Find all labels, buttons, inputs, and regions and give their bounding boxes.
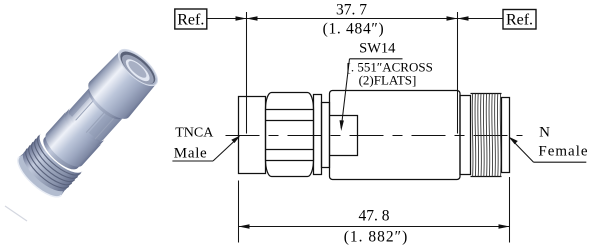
- arrow: left ref leader, tip right at ext line: [236, 16, 247, 20]
- top face ring: [113, 43, 163, 91]
- main body: [330, 91, 461, 180]
- top bore deep center: [126, 58, 149, 80]
- connector bottom face rim: [12, 157, 62, 203]
- connector bottom end cap: [11, 152, 66, 204]
- step ring under top cylinder: [84, 85, 126, 125]
- svg-text:Male: Male: [174, 146, 208, 162]
- top bore inner bright wall: [123, 56, 153, 85]
- hex nut body: [266, 93, 314, 177]
- right Ref box: [503, 10, 536, 30]
- svg-text:(2)FLATS]: (2)FLATS]: [359, 73, 417, 88]
- svg-text:(1. 882″): (1. 882″): [344, 229, 409, 246]
- N female leader underline: [534, 161, 587, 163]
- svg-text:(1. 484″): (1. 484″): [323, 21, 385, 38]
- thread lines: [472, 94, 501, 177]
- hex flat line 1: [266, 109, 314, 111]
- centerline: [226, 135, 523, 137]
- connector top cylinder (slight flare): [82, 50, 157, 125]
- TNCA leader underline: [172, 160, 213, 162]
- connector threaded/ribbed section: [17, 133, 83, 197]
- arrow: right ref leader, tip left at ext line: [458, 16, 469, 20]
- top right extension line: [457, 12, 459, 134]
- connector bright ring: [59, 108, 104, 151]
- svg-text:47. 8: 47. 8: [359, 208, 390, 225]
- ring after hex: [314, 95, 322, 175]
- svg-text:Ref.: Ref.: [506, 12, 533, 29]
- svg-text:N: N: [539, 125, 550, 141]
- hex flat line 3: [266, 149, 314, 151]
- hex facet shading bands: [89, 107, 123, 143]
- svg-text:TNCA: TNCA: [175, 126, 214, 141]
- SW14 leader diagonal: [341, 59, 349, 128]
- bottom dimension line: [239, 226, 510, 228]
- connector groove ring: [38, 133, 81, 174]
- left Ref box: [175, 9, 207, 29]
- arrow: TNCA leader, tip up-right: [231, 136, 240, 144]
- right Ref leader line: [458, 18, 504, 20]
- connector hex section: [64, 87, 124, 146]
- hex facet lines: [74, 97, 116, 140]
- hex flat line 2: [266, 120, 314, 122]
- collar: [460, 96, 471, 175]
- TNCA barrel: [239, 97, 266, 174]
- hex flat line 4: [266, 160, 314, 162]
- N female end cap: [502, 98, 510, 173]
- top left extension line: [246, 12, 248, 134]
- TNCA leader diagonal: [213, 137, 239, 161]
- top dimension line: [247, 18, 458, 20]
- SW14 flat square: [330, 116, 358, 156]
- left Ref leader line: [207, 18, 247, 20]
- connector main body cylinder: [40, 112, 101, 173]
- arrow: SW14 leader, tip down at flat: [340, 120, 344, 131]
- svg-text:37. 7: 37. 7: [336, 2, 367, 19]
- arrow: top dim right end, tip right: [447, 16, 458, 20]
- svg-text:Female: Female: [538, 144, 588, 160]
- groove: [322, 103, 330, 168]
- svg-text:Ref.: Ref.: [177, 12, 204, 29]
- faint floor shadow streak: [5, 206, 27, 221]
- connector bottom face arc: [12, 149, 69, 203]
- arrow: N female leader, tip up-left: [509, 137, 518, 145]
- top bore mid wall: [118, 50, 159, 89]
- arrowheads: [231, 16, 518, 228]
- thread section bottom edge: [471, 176, 502, 178]
- thread section top edge: [471, 93, 502, 95]
- bottom right extension line: [509, 177, 511, 243]
- thread rib lines: [20, 136, 81, 195]
- arrow: bottom dim right, tip right: [499, 224, 510, 228]
- SW14 leader landing: [350, 58, 403, 60]
- N female leader diagonal: [510, 138, 534, 162]
- dimension and leader work: [172, 9, 586, 243]
- bottom left extension line: [238, 181, 240, 243]
- arrow: top dim left end, tip left: [247, 16, 258, 20]
- top bore dark shadow ring: [115, 46, 160, 89]
- svg-text:SW14: SW14: [359, 41, 396, 57]
- arrow: bottom dim left, tip left: [239, 224, 250, 228]
